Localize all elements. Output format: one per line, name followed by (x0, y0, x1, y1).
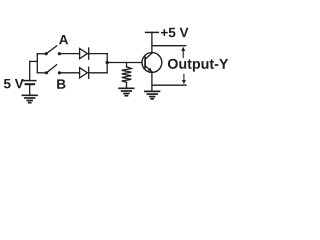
wire diode output vertical (106, 54, 108, 73)
label +5 V (161, 28, 188, 37)
label 5 V (4, 79, 24, 88)
wire switch B to diode (59, 72, 79, 74)
wire switch feed vertical (36, 54, 38, 73)
node junction dot (106, 61, 109, 64)
wire battery to switch rail (30, 60, 38, 62)
resistor R1 (122, 63, 132, 88)
label A (59, 35, 68, 44)
wire junction to base (107, 62, 142, 64)
wire emitter down (151, 72, 153, 90)
switch A (37, 46, 61, 56)
switch B (37, 65, 61, 75)
ground (emitter) (145, 91, 160, 98)
diode D2 (80, 67, 89, 78)
wire output top rail (152, 45, 186, 47)
label B (57, 79, 65, 88)
transistor Q1 (142, 53, 162, 73)
label Output-Y (168, 59, 228, 72)
+5V supply bar (146, 31, 159, 33)
wire output bottom rail (152, 84, 186, 86)
wire collector up (151, 32, 153, 52)
up arrow (181, 47, 185, 58)
wire switch A to diode (59, 53, 79, 55)
ground (resistor) (119, 88, 134, 95)
down arrow (182, 74, 186, 84)
diode D1 (80, 48, 89, 59)
battery BT1 (24, 61, 36, 94)
wire diode D2 to junction (89, 72, 108, 74)
ground (battery) (22, 95, 37, 102)
wire diode D1 to junction (89, 53, 108, 55)
